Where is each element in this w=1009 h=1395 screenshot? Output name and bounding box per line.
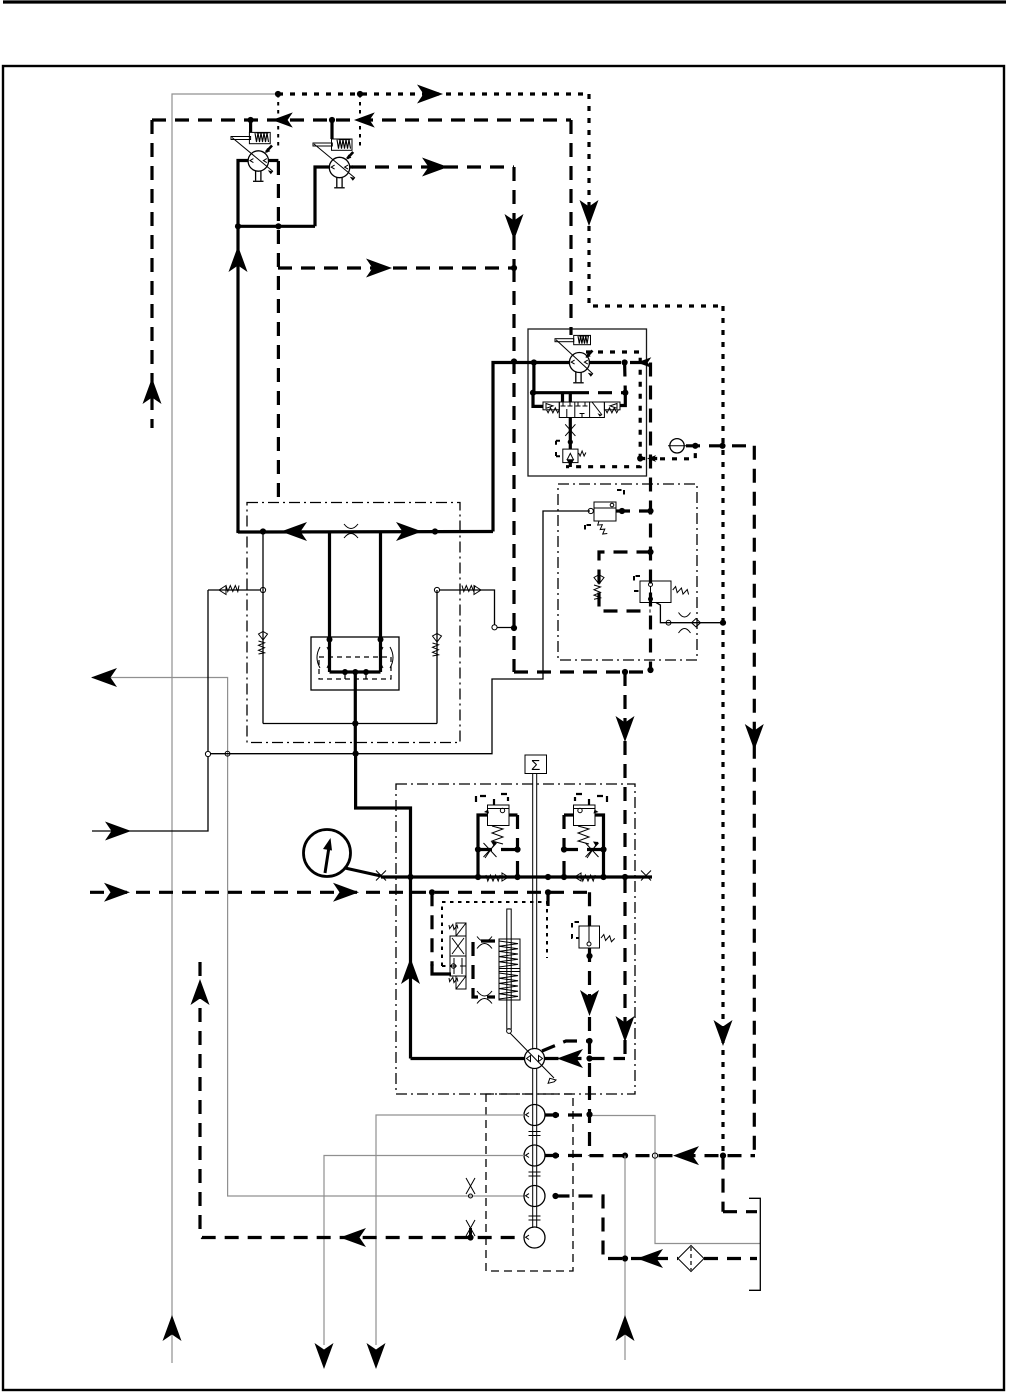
node <box>514 874 520 880</box>
node <box>275 91 281 97</box>
wire dashed relief drain x589 <box>588 892 591 926</box>
wire dashed right drop x650 <box>649 363 652 670</box>
wire dashed stub from node 624 <box>623 363 627 393</box>
node <box>511 265 517 271</box>
wire dashed mid manifold <box>278 266 514 269</box>
node <box>719 443 725 449</box>
wire dashed servo left leg <box>430 892 433 966</box>
node circle drain junction <box>205 751 210 756</box>
wire KR mid link <box>564 848 604 851</box>
gear pump GP2 <box>524 1145 545 1166</box>
wire gray to tank <box>590 1116 760 1244</box>
shaft couplings <box>529 1132 541 1136</box>
arrow right <box>422 158 448 177</box>
wire dashed motor right <box>545 1057 626 1060</box>
check valve H spring-arrow <box>594 575 604 600</box>
node circle <box>666 620 671 625</box>
wire pump P3 outlet <box>589 361 607 364</box>
node GP3 out <box>552 1193 558 1199</box>
arrow right <box>366 259 392 278</box>
node <box>475 846 481 852</box>
node <box>637 455 643 461</box>
node circle port <box>492 625 497 630</box>
wire dotted LS pump2 <box>359 94 361 147</box>
pilot stubs <box>344 672 346 679</box>
wire dotted LS pump1 <box>277 94 279 147</box>
wire KL mid link <box>478 848 518 851</box>
node <box>378 637 384 643</box>
check CR2 spring-arrow <box>462 586 481 595</box>
wire dashed drain manifold y1156 <box>590 1154 756 1157</box>
check valve left loop <box>262 532 264 724</box>
arrow left <box>637 1249 663 1268</box>
wire suction manifold y226 <box>238 225 315 228</box>
arrow down <box>714 1020 733 1046</box>
X plug left <box>376 871 386 881</box>
gauge G1 with arrow <box>304 830 351 877</box>
valve V1 directional <box>543 402 620 418</box>
node <box>622 390 628 396</box>
node <box>342 669 348 675</box>
node circle hop <box>652 1153 657 1158</box>
gear pump GP1 <box>524 1105 545 1126</box>
wire gray line2 <box>324 1156 524 1346</box>
arrow up on left riser <box>143 378 162 404</box>
proportional valve PV <box>448 923 466 989</box>
node <box>545 874 551 880</box>
relief valve K2 <box>572 922 615 948</box>
arrow right on drain line <box>105 822 131 841</box>
wire dashed stub x548 <box>546 892 549 906</box>
node <box>260 528 266 534</box>
feedback spring stack <box>499 939 520 1000</box>
wire dotted LS right drop <box>589 94 723 306</box>
throttle arcs lower <box>477 991 492 1004</box>
enclosure pump P3 unit <box>528 329 647 476</box>
node <box>432 528 438 534</box>
wire dotted LS long vertical <box>721 306 724 1156</box>
node <box>429 889 435 895</box>
node <box>363 669 369 675</box>
wire motor supply <box>411 1057 525 1060</box>
servo stem rod <box>507 909 512 1033</box>
arrow up <box>616 1315 635 1341</box>
relief assembly KL bracket <box>476 794 508 805</box>
wire dashed left riser <box>150 120 153 428</box>
node <box>647 508 653 514</box>
arrow down <box>367 1343 386 1369</box>
enclosure block H dash-dot <box>558 484 697 660</box>
arrow left <box>91 668 117 687</box>
shuttle inner dashed box <box>319 657 391 679</box>
arrow left <box>340 1228 366 1247</box>
top rule <box>3 0 1006 3</box>
arrow down <box>315 1343 334 1369</box>
wire dotted LS stub to x650 <box>640 457 660 460</box>
arrow right <box>417 85 443 104</box>
node <box>561 874 567 880</box>
node <box>511 625 517 631</box>
node <box>357 91 363 97</box>
main work line y877 <box>381 875 652 878</box>
check valve KR on line <box>575 873 596 881</box>
shaft double line <box>533 774 537 1229</box>
enclosure gear pump stack <box>486 1094 573 1271</box>
wire relief drain <box>569 463 572 467</box>
node <box>511 358 517 364</box>
check valve right horizontal <box>440 590 495 625</box>
arrow right <box>396 522 422 541</box>
wire dashed drop to pump P3 compensator <box>569 120 572 335</box>
node circle hop <box>225 751 230 756</box>
node <box>327 637 333 643</box>
shuttle arcs left <box>317 647 330 668</box>
wire shuttle U bottom <box>330 670 381 673</box>
wire dashed pilot y892 <box>90 891 590 894</box>
wire pump P1 left loop <box>238 161 248 533</box>
wire dashed LS to tank <box>723 1210 757 1213</box>
servo enclosure dotted <box>442 902 547 966</box>
throttle arcs on drain <box>679 613 691 634</box>
wire dotted LS P3 compensator <box>566 352 640 467</box>
adjustable throttle KL <box>484 842 497 858</box>
venturi arcs top <box>344 524 358 538</box>
node <box>720 1153 726 1159</box>
wire left branch down <box>328 532 331 673</box>
wire to x514 <box>497 627 514 629</box>
wire U2 drain <box>656 603 721 623</box>
arrow down <box>580 200 599 226</box>
wire dashed x625 riser <box>623 672 626 1059</box>
arrow down <box>580 990 599 1016</box>
arrow right <box>333 883 359 902</box>
arrow left <box>281 522 307 541</box>
thick dash C bracket <box>473 941 495 997</box>
check valve CL spring-arrow <box>259 632 268 655</box>
node <box>720 620 726 626</box>
feedback lever diagonal <box>510 1033 554 1078</box>
tank T1 <box>749 1198 760 1290</box>
node <box>561 846 567 852</box>
check valve left horizontal <box>208 589 260 591</box>
throttle X below valve <box>569 418 572 450</box>
node <box>600 846 606 852</box>
wire relief KR loop <box>595 815 604 875</box>
motor M1 <box>525 1049 545 1069</box>
wire dashed P3 outlet to right <box>607 361 651 364</box>
wire dashed filter to tank <box>704 1257 757 1260</box>
node <box>622 874 628 880</box>
wire dashed motor case drain <box>542 1041 590 1051</box>
node <box>586 953 592 959</box>
wire gray supply vertical <box>172 94 278 1363</box>
check valve right loop <box>436 590 438 724</box>
gear pump GP4 <box>524 1227 545 1248</box>
wire thin drain path to valve U1 <box>211 511 590 754</box>
node <box>248 117 254 123</box>
wire bottom thin loop <box>263 723 437 725</box>
arrow up on gray vertical <box>163 1315 182 1341</box>
adjustable throttle KR <box>586 842 599 858</box>
wire dashed top manifold <box>152 118 571 121</box>
wire dashed U1 out <box>616 509 651 512</box>
node GP2 out <box>552 1152 558 1158</box>
node <box>545 889 551 895</box>
X plug right <box>641 871 651 881</box>
wire dashed GP3 to filter <box>556 1196 679 1259</box>
node <box>475 874 481 880</box>
wire check drain vertical <box>207 590 209 751</box>
node <box>622 1255 628 1261</box>
check valve KL on line <box>486 873 509 881</box>
node <box>586 1111 592 1117</box>
wire to valve V1 right pilot <box>620 393 625 406</box>
arrow up <box>191 979 210 1005</box>
throttle arcs upper <box>477 937 492 949</box>
node <box>586 1038 592 1044</box>
enclosure block G dash-dot <box>247 503 460 743</box>
wire gray line1 <box>376 1115 524 1345</box>
relief assembly KR bracket <box>575 794 607 805</box>
node <box>275 223 281 229</box>
test point line3 <box>466 1178 475 1198</box>
wire pump P1 suction <box>268 159 278 162</box>
wire gray overflow down <box>624 1156 626 1360</box>
node <box>352 720 358 726</box>
wire center output to K block <box>356 754 411 1059</box>
wire dashed LS lower segment <box>721 1156 724 1212</box>
wire relief KL loop <box>478 815 488 875</box>
node <box>692 443 698 449</box>
node <box>647 667 653 673</box>
node <box>619 508 625 514</box>
wire solid-dash link y392 <box>533 391 575 394</box>
filter F1 <box>678 1246 704 1272</box>
valve U2 pressure valve <box>634 576 690 603</box>
relief valve KL <box>484 805 509 844</box>
arrow down lower <box>616 1016 635 1042</box>
wire gauge diagonal <box>345 868 381 876</box>
wire dashed pump1 delivery drop <box>277 161 280 503</box>
wire dotted LS top line <box>278 92 589 95</box>
relief valve RV1 <box>556 441 586 463</box>
node <box>514 846 520 852</box>
shuttle block box <box>311 637 399 690</box>
node circle port <box>434 587 439 592</box>
wire dashed GP2 out <box>545 1154 590 1157</box>
wire dashed bottom link y672 <box>514 670 650 673</box>
wire pump P3 suction main <box>493 363 569 532</box>
test point line4 <box>466 1220 475 1241</box>
node <box>530 390 536 396</box>
arrow up on main supply <box>229 246 248 272</box>
node <box>235 223 241 229</box>
node <box>647 549 653 555</box>
wire main line into block G <box>238 530 493 534</box>
node circle port <box>260 587 265 592</box>
node <box>622 359 628 365</box>
wire dotted LS to gauge <box>660 446 695 459</box>
valve U1 pressure reducer <box>585 490 624 536</box>
wire dashed check loop H <box>599 552 651 611</box>
wire pump P2 left loop <box>315 167 329 226</box>
valve V1 stubs top <box>561 393 564 402</box>
pump P3 <box>555 335 593 382</box>
sigma summation box <box>525 755 547 774</box>
node <box>568 439 573 444</box>
shuttle arcs right <box>380 647 393 668</box>
arrow down <box>745 724 764 750</box>
wire to valve V1 P port <box>533 393 543 407</box>
wire dashed drop x514 <box>512 167 515 268</box>
wire pump P2 outlet stub <box>350 165 353 168</box>
arrow left small <box>647 455 656 462</box>
wire drain L to right arrow <box>92 757 208 831</box>
wire thick drop from P3 line <box>532 363 535 393</box>
node <box>353 751 359 757</box>
node <box>622 669 628 675</box>
node GP1 out <box>552 1112 558 1118</box>
wire dashed GP1 out <box>545 1113 590 1116</box>
relief valve KR <box>574 805 599 844</box>
check valve CR spring-arrow <box>433 634 442 657</box>
arrow left <box>272 112 293 127</box>
node <box>352 669 358 675</box>
wire dashed right drop x754 <box>753 446 756 1154</box>
node <box>600 874 606 880</box>
arrow left <box>557 1049 583 1068</box>
wire dashed pump4 supply riser <box>200 962 524 1238</box>
arrow left <box>673 1146 699 1165</box>
check CL2 arrow-spring <box>219 586 239 595</box>
svg-text:Σ: Σ <box>531 757 540 774</box>
arrow up <box>401 958 420 984</box>
arrow left <box>637 357 651 367</box>
node <box>622 1153 628 1159</box>
node <box>407 874 413 880</box>
node <box>586 1055 592 1061</box>
pump P2 <box>313 120 355 188</box>
wire dashed gauge to right <box>686 444 754 447</box>
arrow right <box>104 883 130 902</box>
enclosure block K dash-dot <box>396 784 635 1094</box>
gauge G2 <box>670 439 684 453</box>
wire dashed pump2 delivery <box>352 165 514 168</box>
diamond port <box>692 619 701 627</box>
gear pump GP3 <box>524 1186 545 1207</box>
arrow down <box>505 214 524 240</box>
node <box>531 359 537 365</box>
wire gray return left arrow line <box>92 678 524 1197</box>
arrow left <box>354 112 375 127</box>
pump P1 <box>231 120 273 181</box>
wire right branch down <box>379 532 382 673</box>
wire center output down <box>354 672 357 754</box>
node <box>329 117 335 123</box>
arrow down on x625 riser <box>616 716 635 742</box>
wire dashed x514 lower <box>512 268 515 672</box>
